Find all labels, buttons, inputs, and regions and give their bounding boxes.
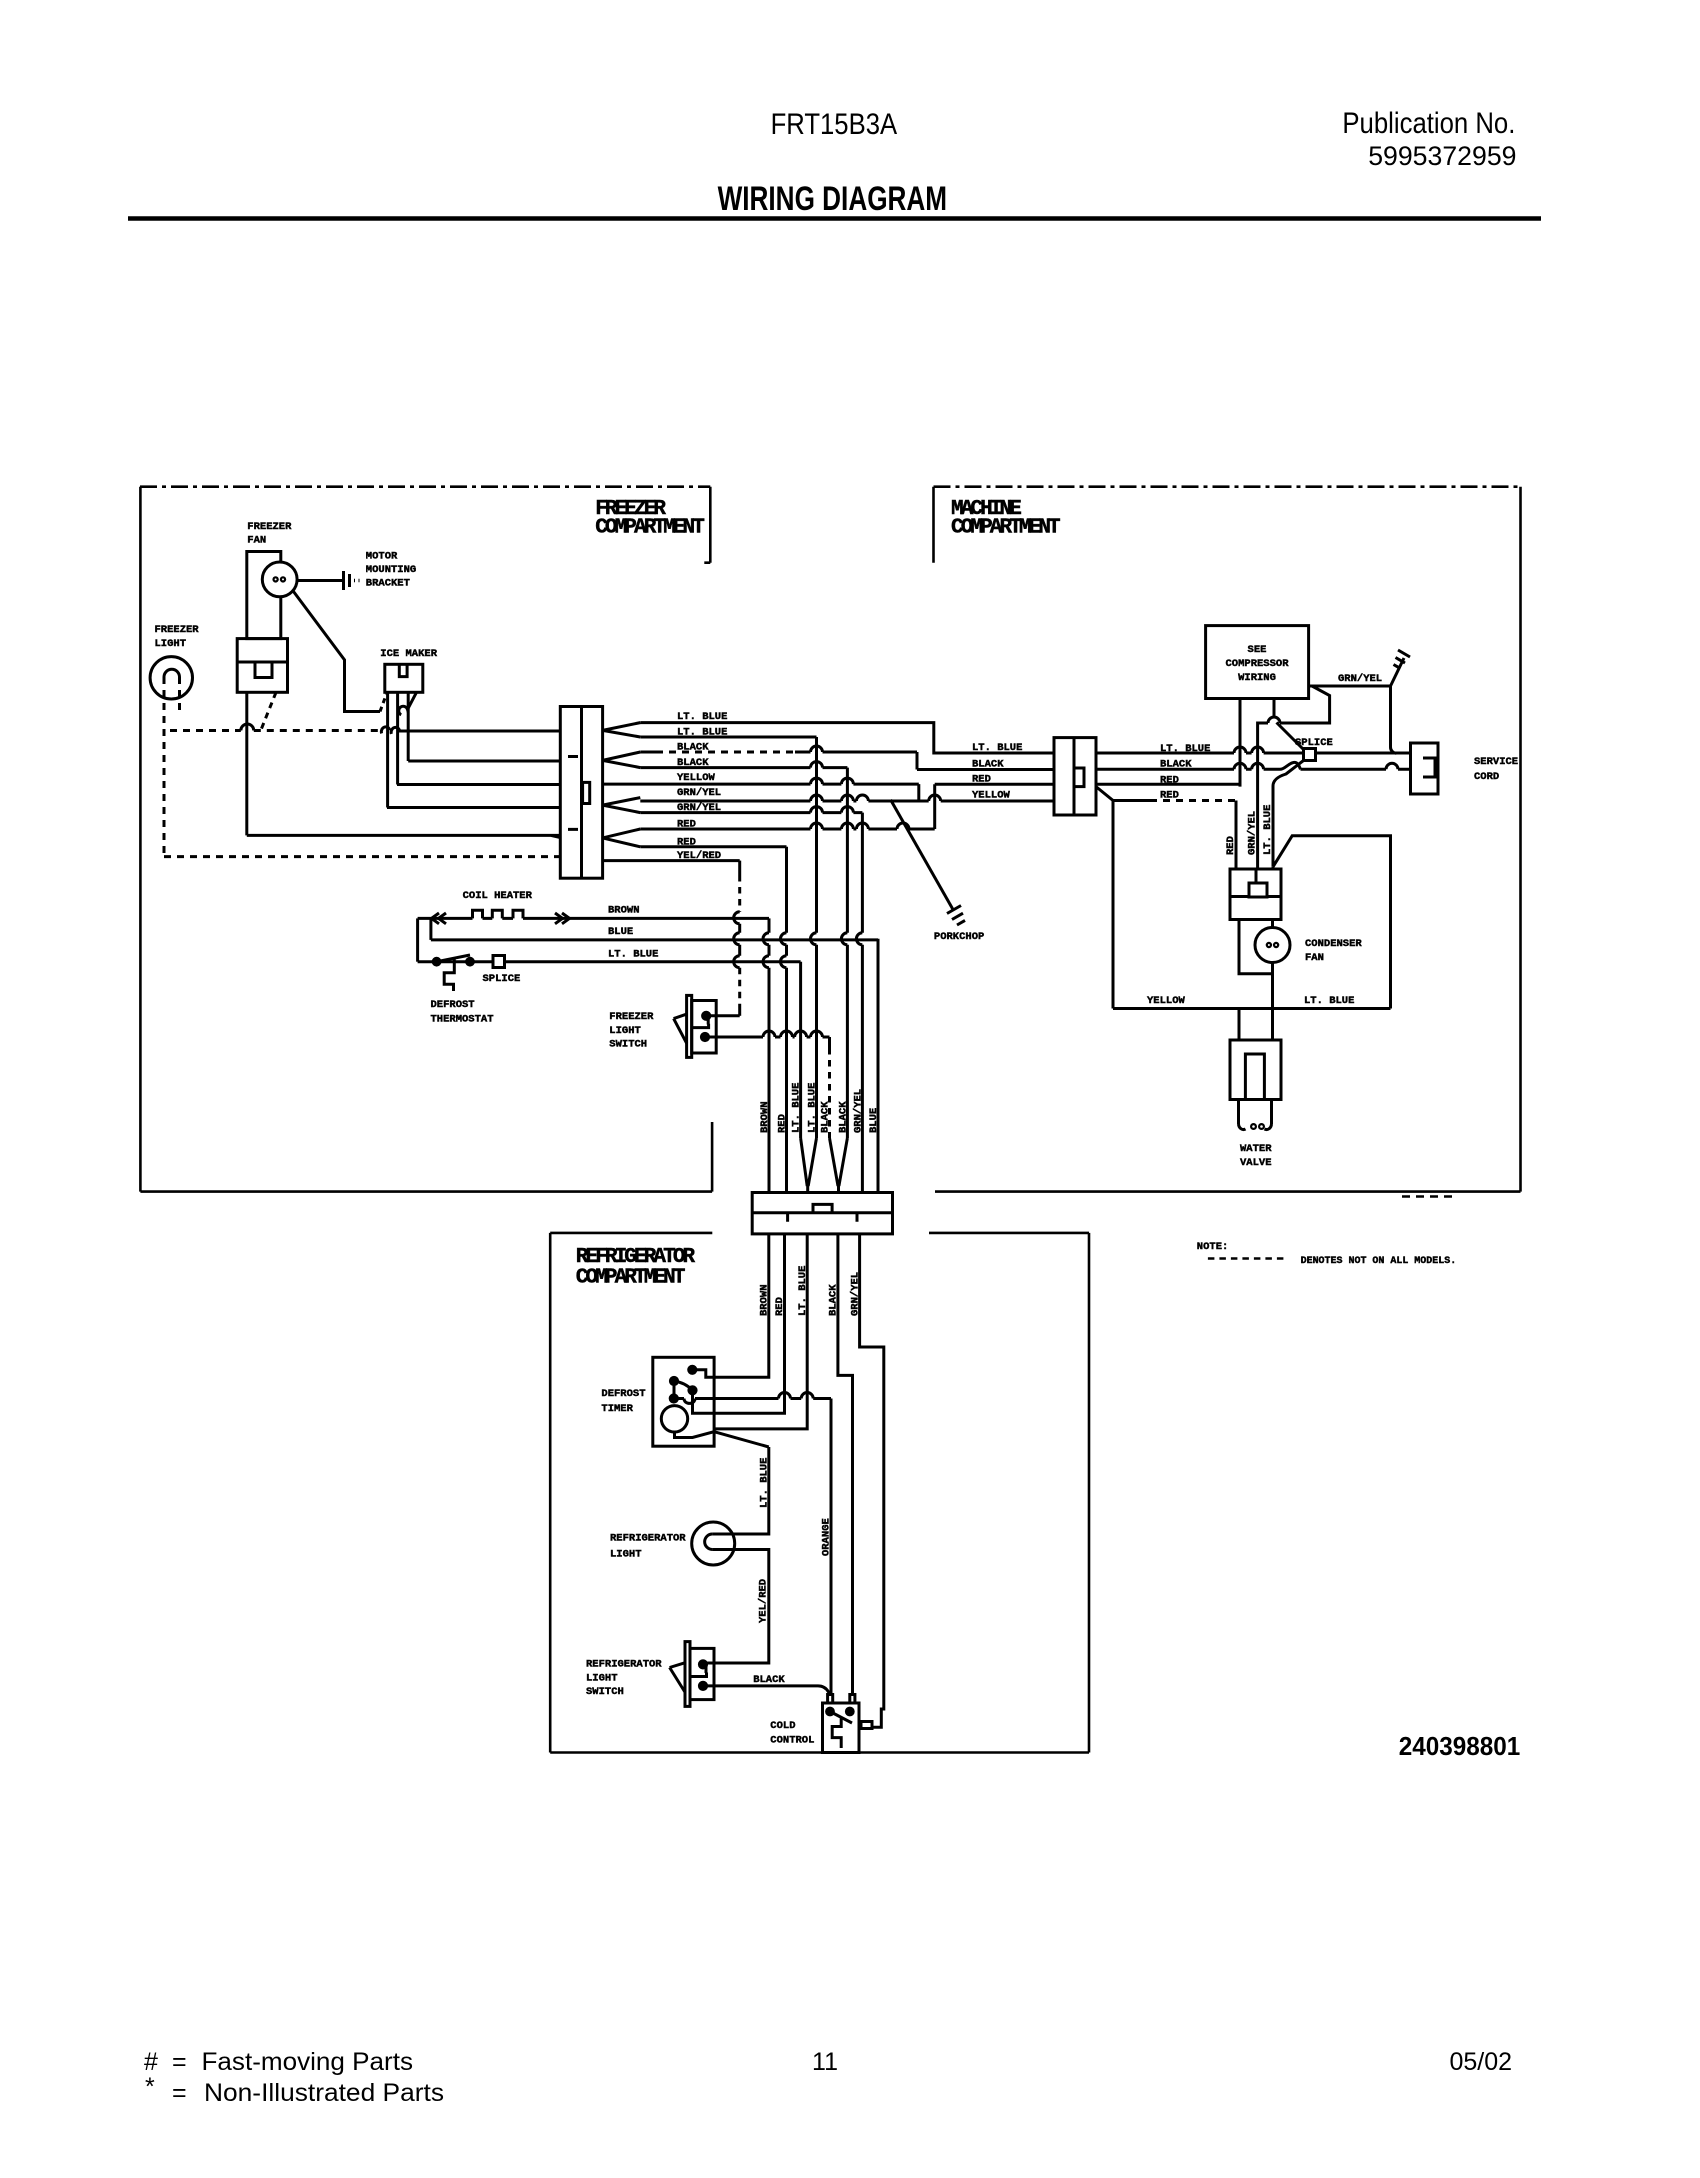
svg-text:ICE MAKER: ICE MAKER (380, 648, 437, 660)
svg-text:Fast-moving Parts: Fast-moving Parts (202, 2048, 414, 2076)
svg-text:240398801: 240398801 (1399, 1731, 1521, 1761)
svg-text:MOUNTING: MOUNTING (366, 564, 416, 576)
svg-text:#: # (144, 2048, 158, 2076)
svg-text:REFRIGERATOR: REFRIGERATOR (586, 1659, 662, 1671)
svg-text:BLACK: BLACK (1160, 759, 1192, 771)
svg-text:SEE: SEE (1248, 644, 1267, 656)
svg-text:FRT15B3A: FRT15B3A (771, 108, 898, 141)
svg-text:NOTE:: NOTE: (1197, 1241, 1229, 1253)
svg-text:WATER: WATER (1240, 1143, 1272, 1155)
svg-text:SERVICE: SERVICE (1474, 756, 1518, 768)
svg-text:DEFROST: DEFROST (601, 1388, 645, 1400)
svg-text:BROWN: BROWN (759, 1101, 771, 1133)
svg-text:FAN: FAN (1305, 952, 1324, 964)
svg-text:REFRIGERATOR: REFRIGERATOR (610, 1532, 686, 1544)
svg-text:RED: RED (777, 1114, 789, 1133)
svg-text:LT. BLUE: LT. BLUE (1262, 805, 1274, 855)
svg-text:GRN/YEL: GRN/YEL (852, 1089, 864, 1133)
svg-text:LT. BLUE: LT. BLUE (608, 949, 658, 961)
svg-text:ORANGE: ORANGE (821, 1518, 833, 1556)
svg-text:COIL HEATER: COIL HEATER (463, 890, 533, 902)
svg-text:BLACK: BLACK (972, 759, 1004, 771)
svg-text:BRACKET: BRACKET (366, 578, 410, 590)
svg-text:LT. BLUE: LT. BLUE (1160, 743, 1210, 755)
svg-text:YEL/RED: YEL/RED (758, 1579, 770, 1623)
svg-text:BLUE: BLUE (868, 1108, 880, 1133)
svg-text:FAN: FAN (247, 535, 266, 547)
svg-text:FREEZER: FREEZER (247, 521, 292, 533)
svg-text:11: 11 (812, 2048, 838, 2076)
svg-text:BLACK: BLACK (837, 1101, 849, 1133)
svg-text:CORD: CORD (1474, 771, 1499, 783)
svg-text:SWITCH: SWITCH (609, 1038, 647, 1050)
svg-text:LIGHT: LIGHT (609, 1025, 641, 1037)
svg-text:*: * (145, 2073, 155, 2101)
svg-text:RED: RED (1160, 775, 1179, 787)
svg-text:COMPRESSOR: COMPRESSOR (1225, 658, 1289, 670)
svg-text:WIRING: WIRING (1238, 672, 1276, 684)
svg-text:THERMOSTAT: THERMOSTAT (431, 1014, 494, 1026)
svg-text:05/02: 05/02 (1449, 2048, 1512, 2076)
svg-text:YELLOW: YELLOW (972, 790, 1011, 802)
svg-text:RED: RED (1160, 790, 1179, 802)
svg-text:BLACK: BLACK (677, 742, 709, 754)
svg-text:LT. BLUE: LT. BLUE (797, 1266, 809, 1316)
svg-text:YELLOW: YELLOW (1147, 995, 1186, 1007)
svg-text:RED: RED (774, 1297, 786, 1316)
svg-text:BLACK: BLACK (753, 1674, 785, 1686)
svg-text:VALVE: VALVE (1240, 1157, 1272, 1169)
svg-text:=: = (172, 2048, 187, 2076)
svg-text:WIRING DIAGRAM: WIRING DIAGRAM (718, 180, 948, 218)
svg-text:COMPARTMENT: COMPARTMENT (576, 1266, 685, 1289)
svg-text:GRN/YEL: GRN/YEL (677, 787, 721, 799)
svg-text:DENOTES NOT ON ALL MODELS.: DENOTES NOT ON ALL MODELS. (1301, 1255, 1457, 1267)
svg-text:GRN/YEL: GRN/YEL (1338, 673, 1382, 685)
svg-text:BLUE: BLUE (608, 926, 633, 938)
svg-text:COLD: COLD (770, 1720, 795, 1732)
svg-text:LIGHT: LIGHT (610, 1548, 642, 1560)
svg-text:BLACK: BLACK (828, 1284, 840, 1316)
svg-text:SPLICE: SPLICE (1295, 737, 1333, 749)
svg-text:SWITCH: SWITCH (586, 1686, 624, 1698)
svg-text:YELLOW: YELLOW (677, 772, 716, 784)
svg-text:LIGHT: LIGHT (586, 1672, 618, 1684)
svg-text:LT. BLUE: LT. BLUE (972, 742, 1022, 754)
svg-text:PORKCHOP: PORKCHOP (934, 931, 984, 943)
svg-text:Publication No.: Publication No. (1342, 107, 1515, 140)
svg-text:LT. BLUE: LT. BLUE (1304, 995, 1354, 1007)
svg-text:=: = (172, 2079, 187, 2107)
svg-text:BLACK: BLACK (820, 1101, 832, 1133)
svg-text:CONTROL: CONTROL (770, 1735, 814, 1747)
svg-text:Non-Illustrated Parts: Non-Illustrated Parts (204, 2079, 444, 2107)
svg-text:CONDENSER: CONDENSER (1305, 938, 1362, 950)
svg-text:LT. BLUE: LT. BLUE (807, 1083, 819, 1133)
svg-text:COMPARTMENT: COMPARTMENT (951, 517, 1060, 540)
svg-text:SPLICE: SPLICE (483, 973, 521, 985)
svg-text:RED: RED (1225, 836, 1237, 855)
svg-text:BROWN: BROWN (608, 905, 640, 917)
svg-text:5995372959: 5995372959 (1368, 141, 1516, 171)
svg-text:FREEZER: FREEZER (609, 1011, 654, 1023)
svg-text:GRN/YEL: GRN/YEL (1247, 811, 1259, 855)
svg-text:FREEZER: FREEZER (155, 624, 200, 636)
svg-text:RED: RED (972, 773, 991, 785)
svg-text:GRN/YEL: GRN/YEL (849, 1272, 861, 1316)
svg-text:LIGHT: LIGHT (155, 638, 187, 650)
svg-text:COMPARTMENT: COMPARTMENT (595, 517, 704, 540)
svg-text:BROWN: BROWN (759, 1284, 771, 1316)
svg-text:LT. BLUE: LT. BLUE (791, 1083, 803, 1133)
svg-text:DEFROST: DEFROST (431, 999, 475, 1011)
svg-text:LT. BLUE: LT. BLUE (759, 1458, 771, 1508)
svg-text:MOTOR: MOTOR (366, 550, 398, 562)
svg-text:TIMER: TIMER (601, 1403, 633, 1415)
